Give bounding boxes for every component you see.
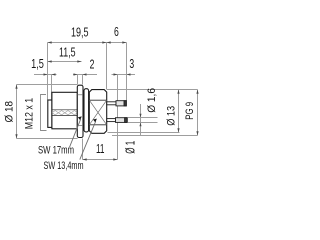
- svg-text:2: 2: [90, 57, 95, 71]
- svg-text:3: 3: [129, 57, 134, 71]
- svg-text:1,5: 1,5: [31, 57, 44, 71]
- svg-text:SW 17mm: SW 17mm: [38, 144, 74, 156]
- svg-text:Ø 1,6: Ø 1,6: [146, 88, 158, 113]
- svg-text:11,5: 11,5: [59, 45, 76, 59]
- svg-text:PG 9: PG 9: [184, 102, 196, 120]
- svg-text:Ø 1: Ø 1: [124, 141, 138, 154]
- svg-text:19,5: 19,5: [71, 26, 89, 40]
- svg-text:SW 13,4mm: SW 13,4mm: [44, 160, 84, 172]
- svg-text:11: 11: [96, 142, 105, 156]
- svg-text:6: 6: [114, 25, 119, 39]
- svg-text:Ø 13: Ø 13: [166, 106, 178, 126]
- svg-text:Ø 18: Ø 18: [4, 101, 16, 123]
- svg-text:M12 x 1: M12 x 1: [23, 98, 35, 130]
